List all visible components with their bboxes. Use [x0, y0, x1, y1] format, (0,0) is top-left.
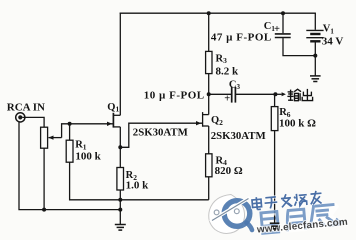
wire: R6 top lead	[274, 94, 276, 106]
node: junction top rail / R3	[207, 11, 211, 15]
resistor R3 body	[206, 51, 212, 73]
wire: top +V rail	[120, 12, 316, 14]
watermark: elecfans logo blue ring	[224, 201, 250, 227]
connector: RCA IN jack	[16, 113, 25, 122]
svg-text:100 k: 100 k	[75, 150, 101, 162]
label: output (shu chu) hand-drawn glyphs	[287, 89, 312, 101]
wire: Q1 drain vertical from top rail	[119, 13, 121, 116]
wire: R3 bottom lead to node B	[208, 74, 210, 95]
svg-text:2SK30ATM: 2SK30ATM	[133, 126, 188, 138]
wire: pot wiper riser	[62, 124, 70, 138]
resistor R4 body	[206, 154, 212, 177]
ground symbol G2	[270, 223, 280, 229]
wire: C1 top lead	[282, 13, 284, 33]
wire: R3 top lead	[208, 13, 210, 51]
svg-text:RCA IN: RCA IN	[7, 102, 45, 114]
node: pot bottom / rail2 junction	[42, 208, 46, 212]
watermark: big glyphs row (outline style)	[259, 202, 342, 235]
wire: rail1-rail2 stub	[119, 200, 121, 210]
transistor Q1 (2SK30ATM JFET)	[113, 113, 120, 148]
wire: C3 right lead to output node	[236, 93, 275, 95]
ground symbol G2 redraw over watermark	[270, 223, 280, 229]
wire: Q1 gate lead with arrow	[70, 123, 113, 125]
wire: battery minus to ground	[314, 43, 316, 76]
capacitor C1 plates (47uF POL)	[275, 33, 291, 35]
resistor R1 body	[66, 140, 73, 162]
wire: C3 left lead	[209, 93, 232, 95]
wire: pot bottom lead	[43, 148, 45, 209]
wire: R1 bottom lead to rail1	[70, 162, 209, 200]
wire: output arrow	[275, 93, 281, 95]
watermark: elecfans logo white circle	[209, 195, 252, 234]
node: rail2 junction	[118, 208, 122, 212]
battery V1 plates	[306, 30, 323, 41]
svg-text:47 µ F-POL: 47 µ F-POL	[211, 32, 272, 44]
wire: ground stem center	[119, 210, 121, 225]
svg-text:8.2 k: 8.2 k	[216, 66, 240, 78]
svg-text:100 k Ω: 100 k Ω	[279, 117, 316, 129]
svg-text:2SK30ATM: 2SK30ATM	[211, 130, 266, 142]
node: Q1 source junction	[118, 145, 122, 149]
wire: R1 top lead	[69, 124, 71, 140]
node B: Q2 drain / C3 junction	[207, 92, 211, 96]
transistor Q2 (2SK30ATM JFET)	[202, 94, 208, 154]
wire: battery plus lead	[314, 13, 316, 30]
capacitor C3 plates	[231, 87, 233, 103]
ground symbol G1	[115, 225, 126, 231]
wire: R6 bottom lead	[274, 131, 276, 223]
wire: Q1 source to Q2 gate link	[120, 123, 202, 147]
node: junction top rail / C1	[281, 11, 285, 15]
svg-text:820 Ω: 820 Ω	[215, 165, 243, 177]
potentiometer body (volume)	[41, 127, 48, 148]
wire: R2 bottom lead	[119, 190, 121, 200]
watermark: www.elecfans.com	[256, 217, 349, 236]
wire: RCA ground drop + bottom rail 2	[19, 122, 120, 210]
node: output junction	[273, 92, 277, 96]
svg-text:34 V: 34 V	[322, 35, 344, 47]
node: battery minus junction	[313, 54, 317, 58]
wire: C1 bottom lead to battery minus	[283, 38, 315, 56]
wire: RCA jack to pot top	[22, 117, 44, 127]
svg-text:10 µ F-POL: 10 µ F-POL	[144, 89, 205, 101]
ground symbol G3	[310, 76, 321, 82]
svg-text:1.0 k: 1.0 k	[126, 180, 150, 192]
wire: pot wiper arrow	[49, 137, 62, 139]
node: gate junction (pot wiper / R1 / Q1 gate)	[68, 122, 72, 126]
wire: R6 ground stem redraw over watermark	[274, 216, 276, 224]
wire: R2 top lead	[119, 147, 121, 167]
node: rail1 junction	[118, 198, 122, 202]
wire: R4 bottom lead to rail1	[208, 177, 210, 200]
svg-text:+: +	[274, 24, 280, 35]
svg-text:+: +	[224, 94, 230, 105]
resistor R2 body	[117, 168, 124, 191]
resistor R6 body	[271, 107, 278, 131]
watermark: text dian zi fa shao you (vector strokes)	[252, 190, 323, 210]
